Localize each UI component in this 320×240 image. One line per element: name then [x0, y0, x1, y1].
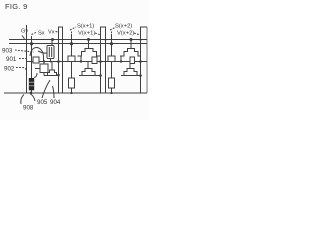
- leader 904 curve: [53, 86, 55, 98]
- label 902: [4, 66, 15, 73]
- svg-text:908: 908: [23, 105, 34, 112]
- wire: cell1 lower rail: [44, 75, 59, 77]
- node junction (111.5,93): [110, 92, 112, 94]
- node junction (81,61.5): [80, 60, 82, 62]
- leader V(x+2) dashes: [134, 33, 141, 35]
- label Vx: [48, 30, 55, 36]
- label V(x+2): [117, 31, 134, 37]
- leader Vx dashes: [56, 30, 59, 32]
- leader 905 curve: [42, 80, 50, 98]
- svg-text:V(x+2): V(x+2): [117, 31, 134, 37]
- leader V(x+1) dashes: [95, 33, 101, 35]
- label 904: [50, 99, 61, 106]
- wire 905 box down: [43, 73, 45, 76]
- svg-text:903: 903: [2, 48, 13, 55]
- leader 908 curve right: [31, 94, 36, 101]
- gate stub T2 cell2: [87, 62, 89, 69]
- svg-text:901: 901: [6, 56, 17, 63]
- wire short vert cell1: [43, 56, 45, 62]
- EL element cell2 outline: [109, 78, 115, 88]
- capacitor box cell2: [92, 57, 97, 64]
- svg-text:V(x+1): V(x+1): [78, 31, 95, 37]
- gate box inner lines: [49, 47, 51, 57]
- leader S(x+1) dashes: [70, 27, 76, 34]
- wire: cell2 lower rail: [79, 75, 101, 77]
- node junction (52.5,39.5): [51, 38, 54, 41]
- leader 901 dashes: [19, 58, 28, 60]
- node junction Sx/bottom: [30, 92, 33, 95]
- leader 908 curve left: [21, 95, 24, 105]
- EL element 908 (black) on Sx: [29, 78, 34, 90]
- node junction (111.5,43.7): [110, 42, 113, 45]
- transistor T1 cell3: [120, 49, 141, 57]
- svg-text:905: 905: [37, 99, 48, 106]
- node junction (140.5,39.7): [140, 39, 142, 41]
- wire: power line (x26.5): [26, 25, 28, 93]
- gate stub T2 cell1: [51, 62, 53, 71]
- svg-text:FIG. 9: FIG. 9: [5, 2, 28, 11]
- wire: A line x100.5 with bridge to x105.5: [101, 27, 106, 93]
- gate stub T2 cell3: [129, 62, 131, 69]
- wire 905 box top stub: [43, 62, 45, 65]
- leader 903 dashes: [15, 50, 34, 52]
- label S(x+1): [77, 24, 94, 30]
- wire: V line right edge: [146, 27, 148, 93]
- component 905 box: [40, 64, 48, 73]
- svg-text:S(x+2): S(x+2): [115, 24, 132, 30]
- node junction (100.5,61.5): [99, 60, 102, 63]
- node junction Sx/cap row: [30, 42, 33, 45]
- wire short vert cell2: [80, 56, 82, 62]
- wire gate box down: [50, 59, 52, 62]
- leader S(x+2) dashes: [110, 27, 116, 34]
- wire: signal line S(x+1) (x71.5): [71, 34, 73, 93]
- transistor T2 cell3: [121, 69, 137, 76]
- label 901: [6, 56, 17, 63]
- node junction (71.5,93): [70, 92, 72, 94]
- label Gy: [21, 29, 28, 35]
- node junction (88.5,39.5): [87, 38, 90, 41]
- capacitor box cell3: [130, 57, 135, 64]
- wire 905 box to Sx: [35, 68, 40, 70]
- wire: signal line S(x+2) (x111.5): [111, 34, 113, 93]
- transistor T1 cell1: semiconductor arch: [30, 48, 44, 57]
- node junction (100.5,75.5): [99, 74, 102, 77]
- contact box on S(x+1): [68, 56, 75, 62]
- wire: capacitor row line: [9, 43, 147, 45]
- svg-text:Vx: Vx: [48, 30, 55, 36]
- label 905: [37, 99, 48, 106]
- transistor T1 cell2: [78, 49, 101, 57]
- svg-text:Gy: Gy: [21, 29, 28, 35]
- contact box 901 on Sx: [33, 57, 39, 63]
- label 908: [23, 105, 34, 112]
- wire: gate row line Gy: [9, 39, 147, 41]
- node junction (58.5,75): [57, 74, 60, 77]
- leader Sx dashes: [32, 32, 38, 35]
- wire: A line x58.5 with bridge to x62.5: [59, 27, 63, 93]
- node junction (50.5,61.5): [50, 61, 52, 63]
- svg-text:S(x+1): S(x+1): [77, 24, 94, 30]
- node junction (58.5,61.5): [57, 60, 60, 63]
- title FIG. 9: [5, 2, 28, 11]
- wire short vert cell3: [120, 56, 122, 62]
- node junction (131,39.5): [130, 38, 133, 41]
- wire: signal line Sx (x31.5): [31, 36, 33, 93]
- node junction (105.5,39.7): [105, 39, 107, 41]
- leader Gy arrow: [22, 36, 25, 39]
- label Sx: [38, 31, 45, 37]
- svg-text:Sx: Sx: [38, 31, 45, 37]
- node junction (140.5,61.5): [139, 60, 142, 63]
- label S(x+2): [115, 24, 132, 30]
- label V(x+1): [78, 31, 95, 37]
- wire arch to right: [38, 51, 47, 53]
- node junction (71.5,43.7): [70, 42, 73, 45]
- EL stack separators: [29, 82, 34, 86]
- wire: A line x140.5 with bridge to x146: [141, 27, 148, 93]
- wire: bottom row line: [4, 92, 147, 94]
- node junction (140.5,75.5): [139, 74, 142, 77]
- wire: mid row line: [26, 61, 147, 63]
- gate stub T1 cell3: [130, 40, 132, 49]
- label 903: [2, 48, 13, 55]
- transistor T2 cell2: [79, 69, 95, 76]
- gate box 903 (tall): [47, 46, 54, 59]
- wire black rect top elbow: [34, 73, 37, 78]
- node junction (44,61.5): [43, 60, 45, 62]
- gate stub T1 cell2: [88, 40, 90, 49]
- svg-text:902: 902: [4, 66, 15, 73]
- wire: cell3 lower rail: [121, 75, 141, 77]
- gate stub T1 cell1: [51, 40, 53, 46]
- leader 902 dashes: [16, 68, 27, 73]
- svg-text:904: 904: [50, 99, 61, 106]
- contact box on S(x+2): [108, 56, 115, 62]
- node junction (121,61.5): [120, 60, 122, 62]
- EL element cell1 outline: [69, 78, 75, 88]
- transistor T2 cell1: [46, 70, 59, 76]
